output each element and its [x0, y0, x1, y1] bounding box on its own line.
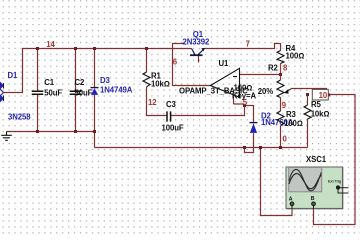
svg-text:3N258: 3N258: [8, 113, 31, 122]
svg-text:14: 14: [46, 40, 55, 49]
oscilloscope XSC1: [286, 155, 349, 209]
wire node 10 to scope B: [314, 95, 356, 225]
wire D2 branch: [245, 105, 254, 153]
svg-text:10: 10: [319, 91, 328, 100]
svg-text:R2: R2: [268, 63, 279, 72]
svg-text:50uF: 50uF: [44, 88, 62, 97]
svg-text:Ext Trig: Ext Trig: [328, 180, 342, 184]
svg-text:U1: U1: [219, 59, 230, 68]
svg-text:C2: C2: [75, 78, 86, 87]
svg-text:R3: R3: [286, 110, 297, 119]
svg-text:6: 6: [173, 57, 178, 66]
svg-text:R5: R5: [311, 100, 322, 109]
capacitor C1: [32, 91, 44, 94]
svg-text:7: 7: [246, 40, 250, 49]
svg-text:50uF: 50uF: [75, 88, 93, 97]
wire Q1 base stub: [198, 56, 200, 63]
junction top rail at C1: [36, 47, 39, 50]
zener diode D3: [91, 88, 99, 95]
svg-text:20%: 20%: [258, 87, 273, 96]
wire emitter rail to R4 step: [205, 44, 281, 51]
svg-text:C1: C1: [44, 78, 55, 87]
bridge rectifier D1 partial symbol: [0, 82, 4, 103]
wire scope A to ground rail: [261, 148, 293, 216]
svg-text:2N3392: 2N3392: [183, 38, 210, 47]
junction rail2 at R3: [279, 146, 282, 149]
svg-text:100uF: 100uF: [162, 123, 184, 132]
ground: [1, 132, 12, 141]
svg-text:B: B: [311, 196, 315, 202]
svg-text:9: 9: [282, 101, 287, 110]
svg-text:10kΩ: 10kΩ: [311, 109, 330, 118]
svg-text:12: 12: [148, 98, 157, 107]
wire op-amp minus input to node 8: [240, 74, 281, 76]
svg-text:C3: C3: [166, 100, 177, 109]
svg-text:D3: D3: [100, 76, 111, 85]
wire R1 bottom to C3: [147, 87, 167, 116]
capacitor C3: [167, 111, 171, 121]
wire C1 branch: [37, 49, 39, 132]
junction node 5: [243, 104, 246, 107]
potentiometer R2: [277, 80, 284, 98]
resistor R5: [304, 105, 311, 119]
junction node 10 box pin: [327, 93, 330, 96]
zener diode D2: [250, 123, 258, 133]
wire ground rail 2: [95, 147, 308, 149]
svg-text:D1: D1: [8, 71, 19, 80]
wire D3 branch: [94, 49, 96, 148]
op-amp U1: [211, 68, 240, 97]
svg-text:100Ω: 100Ω: [286, 52, 305, 61]
wire node 6 riser to op-amp output: [173, 44, 211, 86]
junction top rail at D3: [93, 47, 96, 50]
resistor R4: [277, 51, 284, 64]
svg-text:1N4749A: 1N4749A: [100, 86, 133, 95]
wire node 8 R4 to R2: [280, 64, 282, 81]
wire R5 branch: [307, 95, 309, 148]
junction node 8 minus wire: [279, 73, 282, 76]
resistor R1: [143, 72, 150, 87]
svg-text:100Ω: 100Ω: [284, 119, 303, 128]
wire C3 to node 5 and op-amp plus: [171, 95, 254, 116]
junction rail2 at scope A: [259, 146, 262, 149]
node 10 box: [312, 89, 328, 100]
wire bridge output to top rail: [3, 49, 192, 93]
junction rail2 at D2: [243, 146, 246, 149]
junction top rail at C2: [74, 47, 77, 50]
svg-text:XSC1: XSC1: [306, 155, 327, 164]
junction rail1 at C2: [74, 130, 77, 133]
wire C2 branch: [75, 49, 77, 132]
junction top rail at R1: [145, 47, 148, 50]
wire R1 branch top: [146, 49, 148, 73]
wire R2 to node 9 to R3: [280, 98, 282, 148]
resistor R3: [277, 111, 284, 126]
junction node 10 at R5: [306, 93, 309, 96]
potentiometer R2 wiper arrow: [284, 89, 292, 94]
junction rail1 at D3: [93, 130, 96, 133]
junction rail1 at C1: [36, 130, 39, 133]
capacitor C2: [70, 91, 82, 94]
wire R2 wiper to node 10: [292, 89, 327, 95]
wire ground rail 1: [7, 131, 95, 133]
transistor Q1: [190, 48, 205, 55]
svg-text:Key=A: Key=A: [232, 92, 256, 101]
svg-text:10kΩ: 10kΩ: [151, 80, 170, 89]
